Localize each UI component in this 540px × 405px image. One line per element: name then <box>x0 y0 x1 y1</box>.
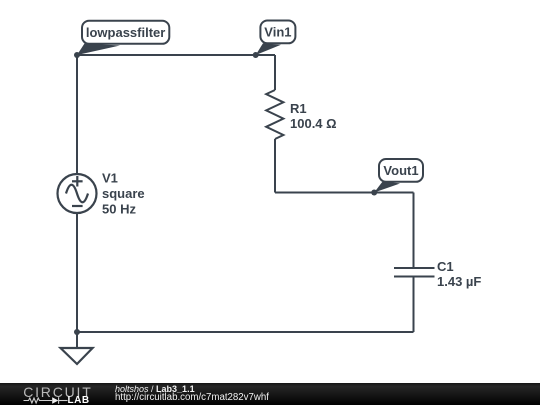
node lowpassfilter flag <box>82 21 169 44</box>
wire mid rail horizontal <box>275 192 414 194</box>
wire capacitor to bottom rail <box>413 277 415 333</box>
ground <box>61 348 93 364</box>
node lowpassfilter junction dot <box>74 52 80 58</box>
wire left vertical upper <box>76 55 78 174</box>
CircuitLab logo word CIRCUIT <box>23 387 92 397</box>
wire Vin corner down to resistor <box>274 55 276 90</box>
resistor R1 value labels <box>290 101 337 131</box>
node Vout1 junction dot <box>371 190 377 196</box>
capacitor C1 value labels <box>437 259 481 289</box>
wire ground stub <box>76 332 78 348</box>
wire right vertical to capacitor <box>413 193 415 269</box>
svg-text:R1: R1 <box>290 101 307 116</box>
node Vin1 flag pointer <box>256 43 281 55</box>
node ground junction dot <box>74 329 80 335</box>
capacitor C1 <box>394 268 435 277</box>
wire top rail <box>77 54 275 56</box>
svg-text:C1: C1 <box>437 259 454 274</box>
svg-text:1.43 µF: 1.43 µF <box>437 274 481 289</box>
svg-text:50 Hz: 50 Hz <box>102 202 136 217</box>
wire resistor bottom to mid rail <box>274 139 276 193</box>
svg-text:Vout1: Vout1 <box>383 163 418 178</box>
node lowpassfilter flag pointer <box>77 44 120 56</box>
voltage source V1 <box>58 174 97 213</box>
svg-text:100.4 Ω: 100.4 Ω <box>290 116 337 131</box>
footer url text <box>115 393 269 403</box>
voltage source V1 labels <box>102 171 145 217</box>
node Vin1 flag <box>260 21 295 44</box>
wire bottom rail <box>77 331 414 333</box>
resistor R1 <box>266 90 283 139</box>
svg-text:lowpassfilter: lowpassfilter <box>86 25 165 40</box>
CircuitLab logo resistor-diode glyph <box>23 396 68 405</box>
CircuitLab logo word LAB <box>68 397 90 405</box>
svg-text:square: square <box>102 186 145 201</box>
node Vout1 flag pointer <box>374 181 400 193</box>
node Vin1 junction dot <box>253 52 259 58</box>
footer bar <box>0 383 540 405</box>
node Vout1 flag <box>379 159 423 182</box>
footer title text <box>115 384 195 394</box>
svg-text:Vin1: Vin1 <box>264 25 291 40</box>
svg-text:V1: V1 <box>102 171 118 186</box>
wire left vertical lower <box>76 213 78 332</box>
